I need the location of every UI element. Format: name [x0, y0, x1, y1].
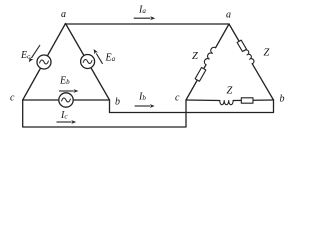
svg-text:Ea: Ea [105, 53, 116, 64]
inductor coil on right triangle side a-c [204, 47, 215, 64]
svg-text:b: b [280, 94, 285, 105]
wire middle I_b: left b down and right, up to right triangle b [110, 100, 274, 113]
wire right triangle side a-b lower segment [252, 64, 273, 100]
wire bottom I_c: left c down and right to right triangle c [23, 100, 186, 127]
current arrow I_b [135, 105, 150, 107]
svg-text:c: c [175, 93, 180, 104]
svg-text:Z: Z [227, 86, 233, 97]
svg-text:a: a [61, 9, 66, 20]
svg-text:Ia: Ia [138, 5, 146, 16]
emf arrow E_c [31, 45, 40, 58]
wire left triangle bottom c-b [23, 99, 110, 101]
wire top a-a [66, 23, 230, 25]
impedance box on side a-c [195, 68, 206, 82]
svg-text:Ec: Ec [20, 50, 31, 61]
svg-text:Ib: Ib [138, 91, 146, 102]
svg-text:b: b [115, 97, 120, 108]
emf arrow E_b [59, 90, 74, 92]
ac source E_b circle [59, 93, 73, 107]
ac source E_a circle [81, 55, 95, 69]
svg-text:a: a [226, 10, 231, 21]
wire right triangle side a-c lower segment [186, 65, 206, 100]
wire right triangle bottom right segment [233, 99, 273, 102]
wire right triangle bottom left segment [186, 99, 220, 102]
wire right triangle side a-c upper segment [216, 24, 229, 48]
emf arrow E_a [96, 54, 102, 64]
impedance box on side a-b [237, 40, 246, 51]
wire right triangle side a-b upper segment [229, 24, 245, 51]
current arrow I_a [134, 17, 151, 19]
current arrow I_c [57, 121, 72, 123]
svg-text:Eb: Eb [59, 76, 70, 87]
inductor coil on right triangle bottom [220, 101, 234, 105]
wire left triangle side a-c [23, 24, 66, 101]
svg-text:c: c [10, 92, 15, 103]
impedance box on right triangle bottom [241, 98, 253, 103]
inductor coil on right triangle side a-b [245, 50, 254, 64]
svg-text:Z: Z [264, 48, 270, 59]
wire left triangle side a-b [66, 24, 110, 101]
svg-text:Ic: Ic [60, 110, 68, 121]
ac source E_c circle [37, 55, 51, 69]
svg-text:Z: Z [192, 51, 198, 62]
